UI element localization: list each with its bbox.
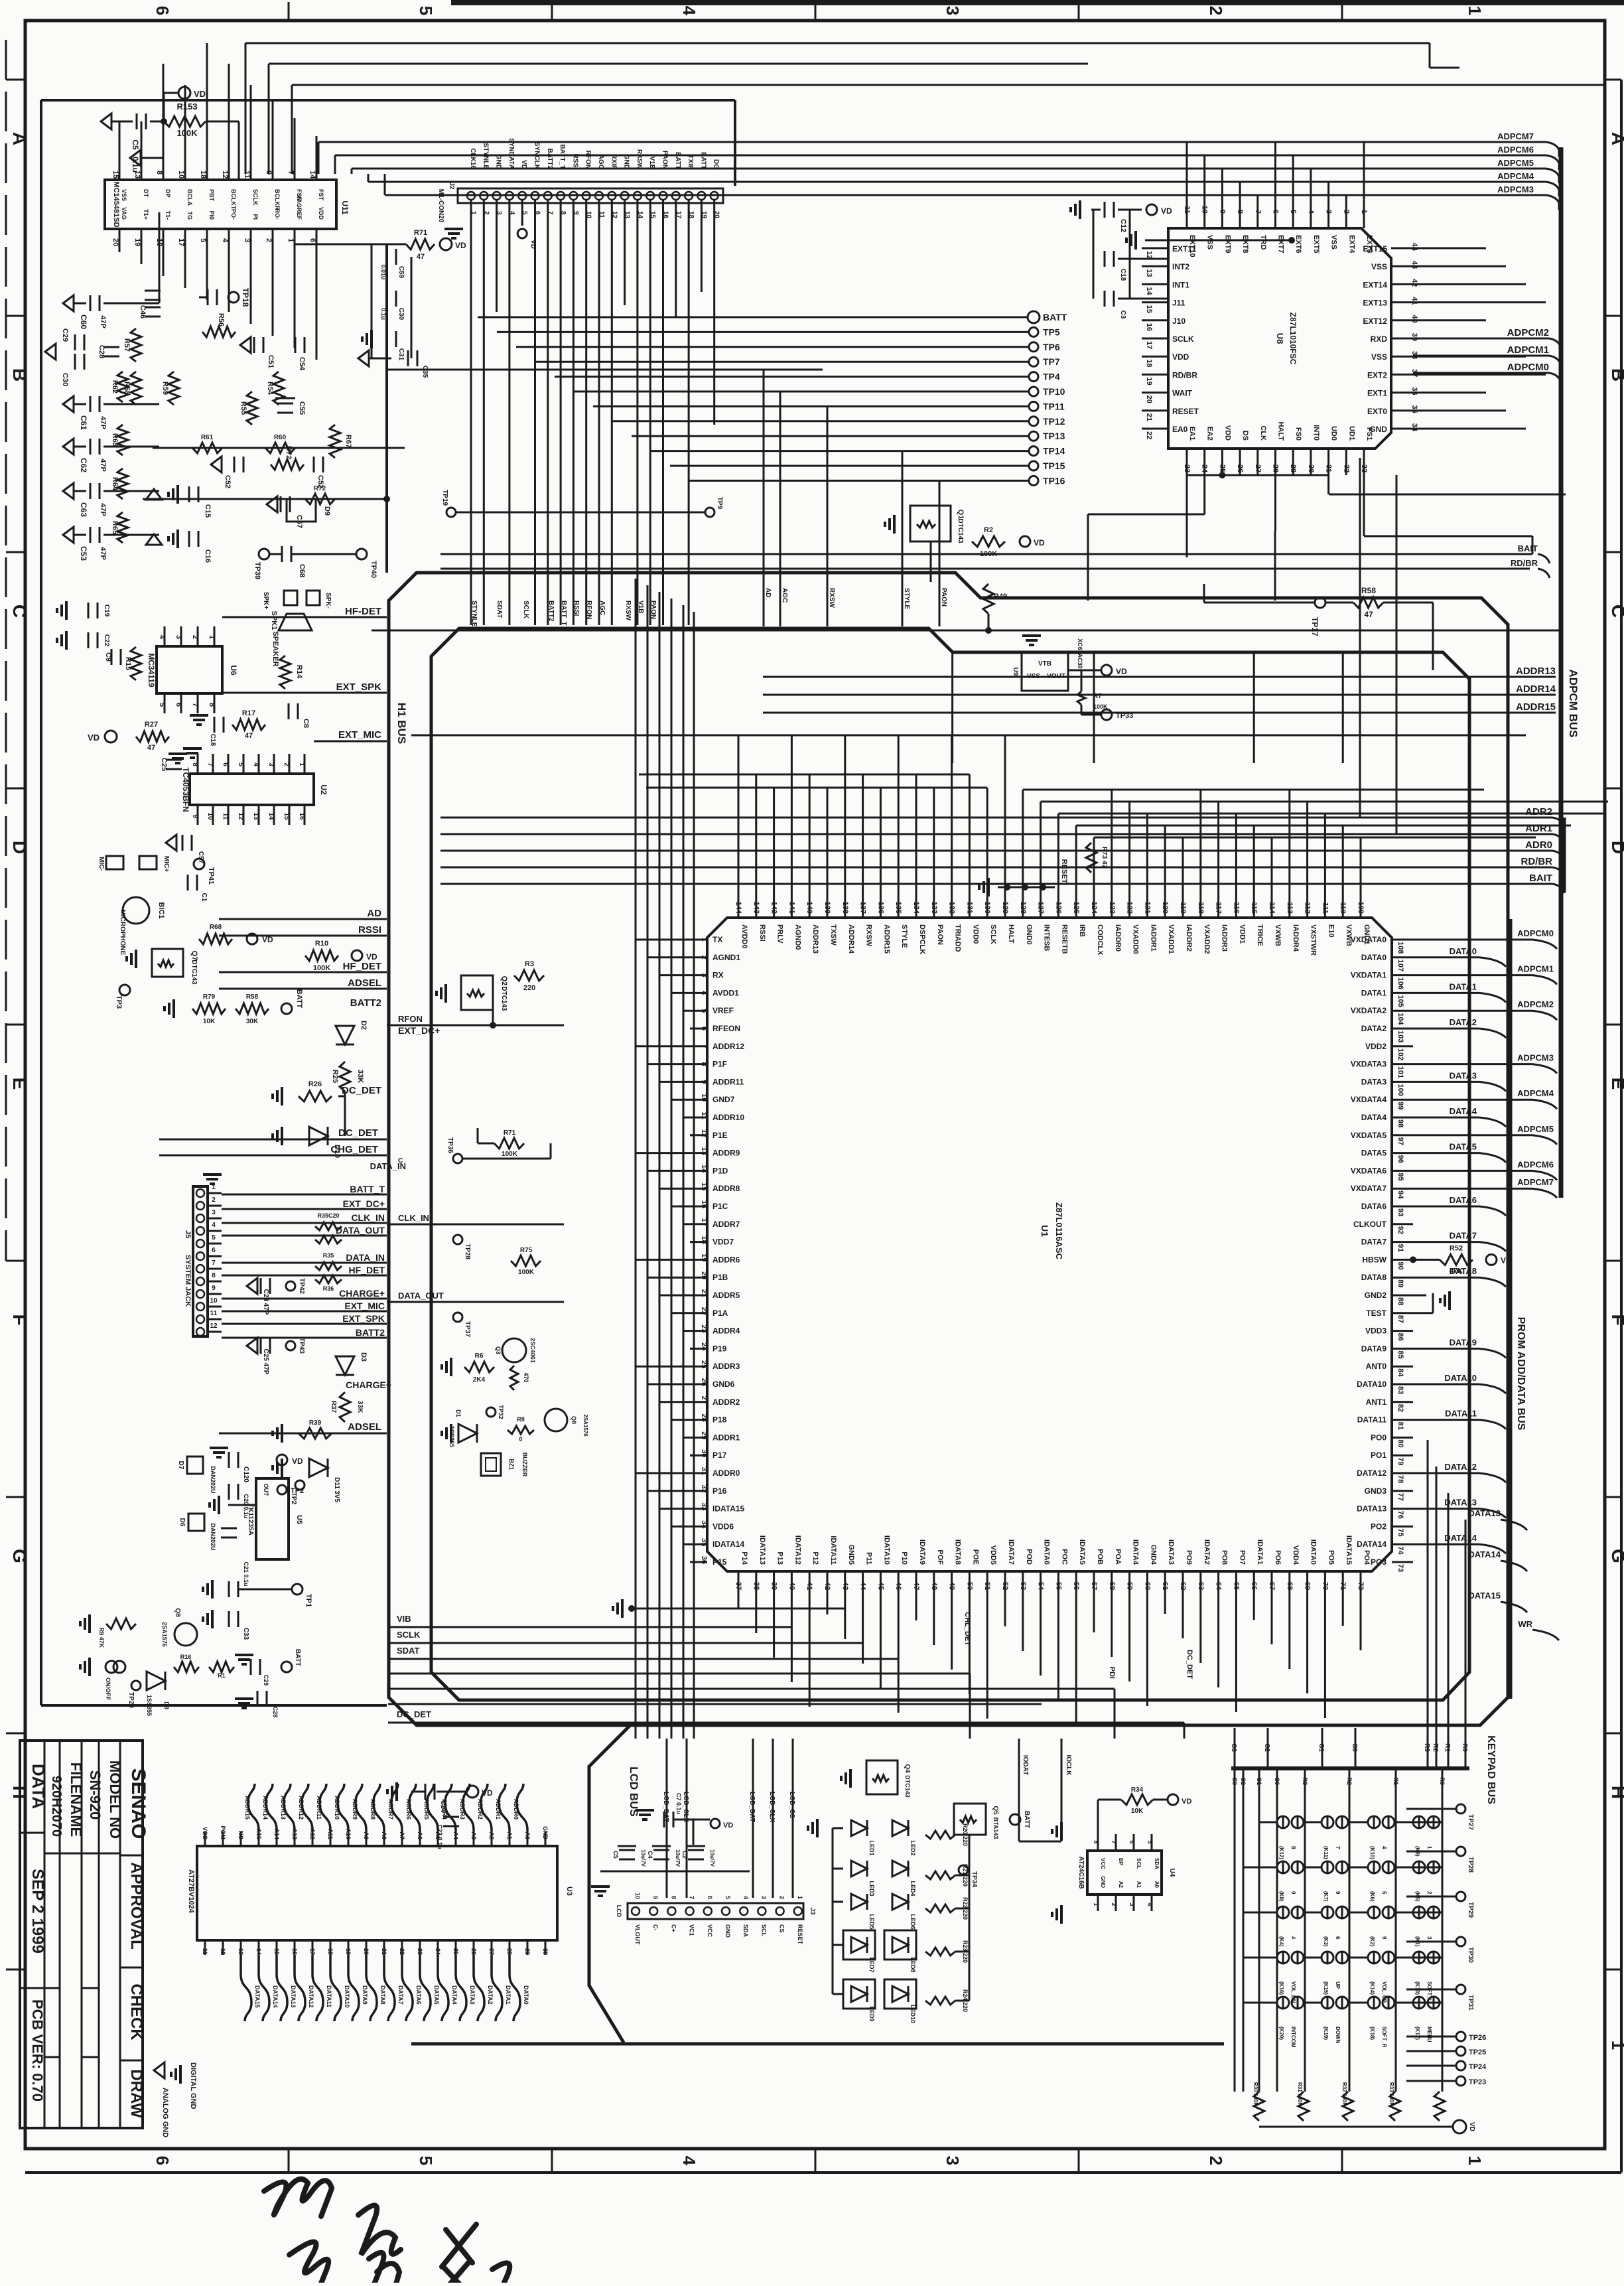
svg-text:ADPCM4: ADPCM4: [1517, 1088, 1554, 1098]
svg-text:(K14): (K14): [1369, 1981, 1375, 1995]
svg-text:C23 0.1u: C23 0.1u: [437, 1824, 443, 1849]
svg-text:2: 2: [212, 1196, 216, 1204]
svg-text:DATA13: DATA13: [1468, 1508, 1501, 1518]
svg-text:P17: P17: [712, 1451, 727, 1460]
svg-text:DATA7: DATA7: [1361, 1238, 1387, 1247]
svg-text:RD/BR: RD/BR: [1521, 856, 1553, 867]
svg-text:11: 11: [202, 1948, 208, 1955]
svg-text:DATA3: DATA3: [469, 1985, 476, 2005]
svg-text:10: 10: [700, 1094, 708, 1102]
svg-text:VXDATA7: VXDATA7: [1351, 1184, 1387, 1193]
svg-text:9: 9: [1335, 1891, 1341, 1894]
svg-text:10: 10: [206, 812, 214, 820]
svg-text:EXT0: EXT0: [1367, 407, 1387, 416]
svg-text:DATA15: DATA15: [254, 1985, 261, 2008]
svg-text:C33: C33: [242, 1628, 249, 1640]
svg-text:83: 83: [1396, 1386, 1404, 1394]
svg-text:R33 100K: R33 100K: [1388, 2082, 1394, 2106]
svg-text:J2: J2: [448, 182, 455, 190]
svg-text:BP: BP: [1118, 1858, 1124, 1866]
svg-text:R32 100K: R32 100K: [1341, 2082, 1347, 2106]
svg-text:36: 36: [1410, 387, 1418, 395]
svg-text:(K19): (K19): [1323, 2027, 1329, 2040]
svg-text:UP: UP: [1335, 1981, 1341, 1989]
svg-text:VD: VD: [482, 1788, 493, 1798]
svg-text:IDATA9: IDATA9: [918, 1539, 926, 1565]
svg-text:107: 107: [1396, 960, 1404, 971]
svg-text:TXSW: TXSW: [829, 924, 837, 946]
svg-text:DATA12: DATA12: [1357, 1468, 1387, 1478]
svg-text:U3: U3: [565, 1887, 573, 1896]
svg-text:102: 102: [1396, 1048, 1404, 1060]
svg-text:R39: R39: [309, 1419, 322, 1427]
svg-text:RD/BR: RD/BR: [1172, 370, 1197, 380]
svg-text:P1C: P1C: [712, 1202, 728, 1211]
svg-text:14: 14: [255, 1948, 262, 1955]
svg-text:DATA11: DATA11: [326, 1985, 332, 2007]
svg-text:VSS: VSS: [1027, 673, 1040, 680]
svg-text:TP24: TP24: [1469, 2063, 1487, 2071]
svg-text:C60: C60: [79, 315, 88, 329]
svg-text:RXSW: RXSW: [828, 588, 835, 608]
svg-text:C61: C61: [79, 415, 88, 430]
svg-text:EXT3: EXT3: [1365, 235, 1373, 253]
svg-text:IDATA1: IDATA1: [1256, 1539, 1264, 1565]
svg-text:1SS355: 1SS355: [146, 1695, 153, 1716]
svg-text:5: 5: [521, 211, 528, 215]
svg-text:TP20: TP20: [127, 1692, 135, 1708]
svg-text:ADPCM2: ADPCM2: [1507, 327, 1549, 338]
svg-text:R35: R35: [323, 1252, 334, 1259]
svg-text:ADDR2: ADDR2: [712, 1397, 740, 1407]
svg-text:DG: DG: [712, 159, 720, 169]
svg-text:R59: R59: [161, 382, 169, 395]
svg-text:75: 75: [1396, 1528, 1404, 1536]
svg-text:10: 10: [210, 1297, 218, 1305]
svg-text:EXT_MIC: EXT_MIC: [344, 1301, 385, 1311]
svg-text:30: 30: [700, 1449, 708, 1457]
svg-text:VXADD2: VXADD2: [1203, 924, 1211, 954]
svg-text:DATA8: DATA8: [1450, 1266, 1477, 1276]
svg-text:ADDR11: ADDR11: [316, 1796, 322, 1820]
svg-text:VDD: VDD: [318, 207, 324, 220]
svg-text:PO2: PO2: [1371, 1522, 1387, 1531]
svg-text:2: 2: [1342, 210, 1350, 214]
svg-text:ADPCM1: ADPCM1: [1507, 344, 1549, 356]
svg-text:GND1: GND1: [1363, 924, 1371, 945]
svg-text:A0: A0: [524, 1831, 531, 1839]
svg-text:D6: D6: [178, 1518, 186, 1527]
svg-text:VSS: VSS: [1330, 235, 1338, 250]
svg-text:PO4: PO4: [1363, 1550, 1371, 1565]
svg-text:VCC: VCC: [707, 1924, 713, 1938]
svg-text:RSSI: RSSI: [571, 154, 578, 170]
svg-text:1: 1: [287, 238, 295, 242]
svg-text:3: 3: [943, 2156, 963, 2165]
svg-text:C35: C35: [421, 366, 429, 378]
svg-text:R75: R75: [520, 1247, 533, 1254]
svg-text:12: 12: [237, 812, 244, 820]
svg-text:2: 2: [283, 762, 290, 766]
svg-text:C63: C63: [79, 502, 88, 517]
svg-text:ADPCM3: ADPCM3: [1497, 184, 1534, 194]
svg-text:SEP 2 1999: SEP 2 1999: [29, 1869, 46, 1954]
svg-text:V1B: V1B: [648, 157, 655, 169]
svg-text:Q5: Q5: [992, 1806, 999, 1815]
svg-text:6: 6: [534, 211, 541, 215]
svg-text:DAN202U: DAN202U: [210, 1523, 216, 1550]
svg-text:RESETB: RESETB: [1060, 924, 1068, 954]
svg-text:25: 25: [700, 1360, 708, 1368]
svg-text:15: 15: [283, 812, 290, 820]
svg-text:FS1: FS1: [1365, 427, 1373, 441]
svg-text:(K17): (K17): [1414, 2027, 1420, 2040]
svg-text:10u/7V: 10u/7V: [640, 1849, 646, 1867]
svg-text:100K: 100K: [980, 550, 997, 558]
svg-text:ADR2: ADR2: [1525, 806, 1552, 818]
svg-text:D8: D8: [163, 1701, 170, 1709]
svg-text:20: 20: [1145, 395, 1153, 403]
svg-text:TP43: TP43: [298, 1338, 305, 1354]
svg-text:19: 19: [700, 211, 707, 219]
svg-text:R14: R14: [295, 665, 303, 679]
svg-text:27: 27: [488, 1948, 495, 1955]
svg-text:R2: R2: [1346, 1777, 1353, 1785]
svg-text:BATT_T: BATT_T: [560, 601, 567, 626]
svg-text:DATA11: DATA11: [1445, 1409, 1477, 1419]
svg-text:D: D: [1608, 841, 1624, 854]
svg-text:PAON: PAON: [649, 601, 657, 619]
svg-text:LED1: LED1: [868, 1840, 875, 1855]
svg-text:10K: 10K: [1131, 1808, 1144, 1815]
svg-text:4: 4: [679, 6, 699, 16]
svg-text:6: 6: [212, 1247, 216, 1254]
svg-text:2: 2: [1111, 1902, 1117, 1906]
svg-text:11: 11: [700, 1111, 708, 1119]
svg-text:20: 20: [713, 211, 720, 219]
svg-text:T1+: T1+: [143, 209, 149, 220]
svg-text:FS0: FS0: [1294, 427, 1302, 441]
svg-text:LED8: LED8: [910, 1957, 916, 1972]
svg-text:DATA9: DATA9: [1361, 1344, 1387, 1353]
svg-text:TP14: TP14: [1043, 446, 1065, 457]
svg-text:R2: R2: [1432, 1743, 1439, 1752]
svg-text:ADDR8: ADDR8: [712, 1184, 740, 1193]
svg-text:VIB: VIB: [397, 1614, 411, 1624]
svg-text:6: 6: [153, 2156, 172, 2165]
svg-text:KEYPAD BUS: KEYPAD BUS: [1485, 1735, 1497, 1804]
svg-text:81: 81: [1396, 1422, 1404, 1430]
svg-text:88: 88: [1396, 1297, 1404, 1305]
svg-text:470: 470: [523, 1372, 529, 1382]
svg-text:R35C20: R35C20: [317, 1212, 339, 1219]
svg-text:DATA3: DATA3: [1361, 1077, 1387, 1086]
svg-text:C55: C55: [298, 401, 306, 415]
svg-text:PO0: PO0: [1371, 1433, 1387, 1442]
svg-text:R6: R6: [475, 1352, 484, 1360]
svg-text:ADPCM2: ADPCM2: [1517, 999, 1554, 1009]
svg-text:0: 0: [1290, 1891, 1296, 1894]
svg-text:40: 40: [1410, 315, 1418, 323]
svg-text:VXDATA5: VXDATA5: [1351, 1131, 1387, 1140]
svg-text:97: 97: [1396, 1137, 1404, 1145]
svg-text:P13: P13: [776, 1551, 784, 1565]
svg-text:3: 3: [1325, 210, 1333, 214]
svg-text:ADDR6: ADDR6: [405, 1799, 412, 1820]
svg-text:CHECK: CHECK: [127, 1983, 145, 2040]
svg-text:TP37: TP37: [464, 1321, 471, 1337]
svg-text:3: 3: [1426, 1936, 1432, 1940]
svg-text:GND7: GND7: [712, 1095, 735, 1104]
svg-text:ADDR11: ADDR11: [712, 1077, 744, 1086]
svg-text:SPK+: SPK+: [262, 592, 269, 610]
svg-text:(K18): (K18): [1369, 2027, 1375, 2040]
svg-text:VSS: VSS: [1206, 235, 1214, 250]
svg-text:C1: C1: [200, 893, 208, 902]
svg-text:103: 103: [1396, 1031, 1404, 1042]
svg-text:PDI: PDI: [1108, 1667, 1116, 1679]
svg-text:RFON: RFON: [584, 151, 592, 169]
svg-text:77: 77: [1396, 1493, 1404, 1501]
svg-text:EXT2: EXT2: [1367, 370, 1387, 380]
svg-text:(K6): (K6): [1369, 1891, 1375, 1902]
svg-text:11: 11: [243, 171, 251, 179]
svg-text:VAG: VAG: [121, 207, 127, 220]
svg-text:36: 36: [700, 1556, 708, 1564]
svg-text:DATA_IN: DATA_IN: [346, 1252, 385, 1263]
svg-text:RXSW: RXSW: [624, 601, 632, 621]
svg-text:D9: D9: [323, 506, 331, 516]
svg-text:3: 3: [174, 635, 182, 639]
svg-text:EXT5: EXT5: [1312, 235, 1320, 253]
svg-text:20: 20: [700, 1271, 708, 1279]
svg-text:ADDR14: ADDR14: [262, 1796, 269, 1820]
svg-text:IDATA12: IDATA12: [793, 1536, 801, 1565]
svg-text:GND5: GND5: [847, 1544, 855, 1565]
svg-text:AVDD0: AVDD0: [740, 924, 748, 948]
svg-text:ADDR3: ADDR3: [459, 1799, 466, 1820]
svg-text:GND4: GND4: [1149, 1544, 1157, 1565]
svg-text:EXT13: EXT13: [1363, 299, 1387, 308]
svg-text:27: 27: [700, 1396, 708, 1404]
svg-text:SCLK: SCLK: [252, 189, 259, 206]
svg-text:47P: 47P: [99, 459, 107, 472]
svg-text:DATA11: DATA11: [1357, 1415, 1387, 1425]
svg-text:2: 2: [1206, 6, 1226, 15]
svg-text:3: 3: [943, 6, 963, 15]
svg-text:2: 2: [1426, 1891, 1432, 1894]
svg-text:TP26: TP26: [1469, 2034, 1486, 2042]
svg-text:3: 3: [243, 238, 251, 242]
svg-text:7: 7: [700, 1044, 708, 1048]
svg-text:13: 13: [624, 211, 631, 219]
svg-text:95: 95: [1396, 1173, 1404, 1180]
svg-text:DATA6: DATA6: [1361, 1202, 1387, 1211]
svg-text:19: 19: [345, 1948, 352, 1955]
svg-text:PO-: PO-: [230, 209, 237, 220]
svg-text:5: 5: [158, 703, 166, 707]
svg-text:38: 38: [1410, 351, 1418, 359]
svg-text:C3: C3: [1231, 1777, 1238, 1785]
svg-text:(K12): (K12): [1278, 1846, 1284, 1859]
svg-text:R30 100K: R30 100K: [1252, 2082, 1258, 2106]
svg-text:DATA10: DATA10: [344, 1985, 350, 2008]
svg-text:VDD: VDD: [1223, 425, 1231, 441]
svg-text:C62: C62: [79, 458, 88, 472]
svg-text:E: E: [1608, 1078, 1624, 1090]
svg-text:4: 4: [158, 635, 166, 640]
svg-text:30: 30: [1307, 464, 1315, 472]
svg-text:15: 15: [111, 171, 119, 179]
svg-text:ANT1: ANT1: [1366, 1397, 1387, 1407]
svg-text:A4: A4: [452, 1831, 459, 1839]
svg-text:DATA14: DATA14: [1357, 1539, 1387, 1549]
svg-text:7: 7: [287, 171, 295, 175]
svg-text:TP12: TP12: [1043, 416, 1065, 427]
svg-text:4: 4: [700, 991, 708, 995]
svg-text:17: 17: [309, 1948, 316, 1955]
svg-text:F: F: [9, 1314, 30, 1325]
svg-text:INT1: INT1: [1172, 280, 1189, 289]
svg-text:TX: TX: [712, 935, 722, 944]
svg-text:33K: 33K: [356, 1401, 364, 1413]
svg-text:33K: 33K: [356, 1070, 364, 1083]
svg-text:TK11235A: TK11235A: [247, 1504, 254, 1536]
svg-text:LED7: LED7: [868, 1957, 875, 1972]
svg-text:ADDR8: ADDR8: [370, 1799, 376, 1820]
svg-text:18: 18: [1145, 359, 1153, 367]
svg-text:C4: C4: [647, 1851, 653, 1859]
svg-text:22: 22: [399, 1948, 405, 1955]
svg-text:PROM ADD/DATA BUS: PROM ADD/DATA BUS: [1515, 1317, 1526, 1431]
svg-text:VLOUT: VLOUT: [634, 1924, 641, 1945]
svg-text:32: 32: [700, 1485, 708, 1493]
svg-text:P18: P18: [712, 1415, 727, 1425]
svg-text:9: 9: [1218, 210, 1226, 214]
svg-text:DC_DET: DC_DET: [338, 1127, 378, 1139]
svg-text:TP30: TP30: [1467, 1947, 1474, 1963]
svg-text:TP2: TP2: [291, 1487, 304, 1495]
svg-text:(K3): (K3): [1323, 1936, 1329, 1947]
svg-text:POE: POE: [971, 1549, 979, 1565]
svg-text:RXD: RXD: [1371, 334, 1388, 344]
svg-text:VDD5: VDD5: [989, 1545, 997, 1565]
svg-text:R54: R54: [266, 382, 274, 395]
svg-text:R2: R2: [984, 526, 993, 534]
svg-text:LCD_CLX: LCD_CLX: [768, 1792, 776, 1822]
svg-text:DP: DP: [165, 189, 171, 198]
svg-text:C51: C51: [267, 355, 275, 368]
svg-text:BZ1: BZ1: [508, 1459, 515, 1470]
svg-text:10: 10: [634, 1893, 641, 1899]
svg-text:920H2070: 920H2070: [49, 1776, 64, 1837]
svg-text:TP15: TP15: [1043, 461, 1065, 471]
svg-text:A2: A2: [488, 1831, 495, 1839]
svg-text:VDD3: VDD3: [1365, 1326, 1387, 1336]
svg-text:9: 9: [191, 814, 198, 818]
svg-text:SCL: SCL: [1136, 1858, 1142, 1869]
svg-text:SCLK: SCLK: [1172, 334, 1194, 344]
svg-text:8: 8: [208, 703, 216, 707]
svg-text:DATA3: DATA3: [1450, 1070, 1477, 1080]
svg-text:SOFT_R: SOFT_R: [1381, 2027, 1387, 2048]
svg-text:IDATA15: IDATA15: [1345, 1536, 1353, 1565]
svg-text:RXIF: RXIF: [610, 154, 617, 169]
svg-text:R68: R68: [210, 924, 222, 931]
svg-text:FST: FST: [318, 189, 324, 201]
svg-text:Q2: Q2: [500, 976, 508, 986]
svg-text:BATT_T: BATT_T: [350, 1184, 385, 1194]
svg-text:U11: U11: [340, 200, 350, 215]
svg-text:1: 1: [1465, 6, 1485, 15]
svg-text:MICROPHONE: MICROPHONE: [119, 910, 126, 956]
svg-text:TP39: TP39: [253, 562, 261, 579]
svg-text:TP11: TP11: [1043, 401, 1065, 411]
svg-text:DATA6: DATA6: [415, 1985, 422, 2005]
svg-text:TP3: TP3: [115, 995, 123, 1009]
svg-text:CS: CS: [779, 1924, 785, 1933]
svg-text:PAON: PAON: [661, 151, 669, 169]
svg-text:GND2: GND2: [1365, 1291, 1387, 1300]
svg-text:ADDR5: ADDR5: [712, 1291, 740, 1300]
svg-text:R60: R60: [274, 434, 287, 441]
svg-text:V1B: V1B: [637, 601, 644, 613]
svg-text:U5: U5: [295, 1515, 303, 1524]
svg-text:5: 5: [724, 1896, 731, 1899]
svg-text:EA2: EA2: [1206, 427, 1214, 441]
svg-text:7: 7: [689, 1896, 695, 1899]
svg-text:5: 5: [1289, 210, 1297, 214]
svg-text:TG: TG: [186, 212, 193, 220]
svg-text:IDATA10: IDATA10: [882, 1536, 890, 1565]
svg-text:43: 43: [1410, 261, 1418, 269]
svg-text:5: 5: [1146, 1840, 1153, 1843]
svg-text:ADDR4: ADDR4: [712, 1326, 740, 1336]
svg-text:RSSI: RSSI: [758, 924, 766, 942]
svg-text:TP28: TP28: [1467, 1857, 1474, 1873]
svg-text:CHARGE+: CHARGE+: [346, 1380, 391, 1390]
svg-text:LCD_CS: LCD_CS: [788, 1792, 795, 1818]
svg-text:93: 93: [1396, 1208, 1404, 1216]
svg-text:DT: DT: [143, 189, 149, 197]
svg-text:AT24C16B: AT24C16B: [1077, 1856, 1085, 1889]
svg-text:R3: R3: [525, 960, 534, 968]
svg-text:TP34: TP34: [971, 1871, 978, 1887]
svg-text:9: 9: [1381, 1936, 1387, 1940]
svg-text:HF_DET: HF_DET: [349, 1265, 385, 1275]
svg-text:EXT1: EXT1: [1367, 389, 1387, 398]
svg-text:ADDR12: ADDR12: [712, 1042, 744, 1051]
svg-text:VTB: VTB: [1038, 660, 1051, 668]
svg-text:BCLA: BCLA: [186, 189, 193, 206]
svg-text:91: 91: [1396, 1244, 1404, 1252]
svg-text:B: B: [9, 368, 30, 382]
svg-text:82: 82: [1396, 1404, 1404, 1412]
svg-text:C8: C8: [302, 719, 310, 728]
svg-text:STYNLE: STYNLE: [470, 601, 478, 627]
svg-text:DAN202U: DAN202U: [210, 1466, 216, 1493]
svg-text:EXT_SPK: EXT_SPK: [336, 681, 382, 693]
svg-text:P16: P16: [712, 1486, 727, 1496]
svg-text:84: 84: [1396, 1368, 1404, 1377]
svg-text:ADDR15: ADDR15: [244, 1796, 251, 1820]
svg-text:26: 26: [700, 1378, 708, 1386]
svg-text:2SA1576: 2SA1576: [161, 1622, 168, 1647]
svg-text:Z87L0116ASC: Z87L0116ASC: [1054, 1202, 1064, 1260]
svg-text:Q8: Q8: [571, 1416, 577, 1424]
svg-text:R17: R17: [242, 709, 255, 717]
svg-text:ANT0: ANT0: [1366, 1362, 1387, 1371]
